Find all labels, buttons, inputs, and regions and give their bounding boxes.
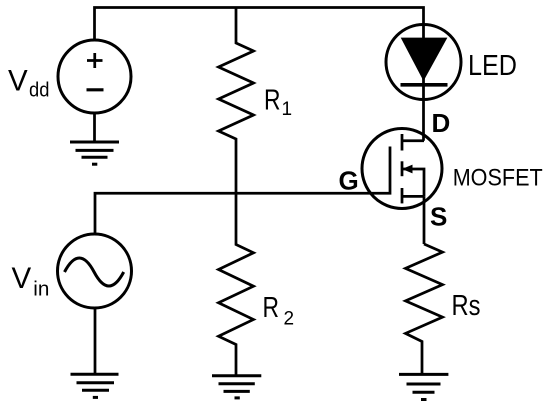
svg-text:R: R xyxy=(264,85,281,117)
svg-text:2: 2 xyxy=(284,309,295,330)
svg-text:V: V xyxy=(8,65,28,98)
svg-text:in: in xyxy=(33,279,49,301)
svg-text:R: R xyxy=(263,292,280,324)
svg-text:1: 1 xyxy=(282,99,293,120)
svg-text:D: D xyxy=(432,108,451,138)
svg-text:MOSFET: MOSFET xyxy=(453,165,543,192)
svg-text:S: S xyxy=(430,202,447,232)
svg-text:Rs: Rs xyxy=(452,290,481,322)
svg-text:V: V xyxy=(12,262,32,295)
svg-text:LED: LED xyxy=(468,50,517,82)
svg-text:G: G xyxy=(339,166,359,196)
svg-text:dd: dd xyxy=(29,80,49,102)
